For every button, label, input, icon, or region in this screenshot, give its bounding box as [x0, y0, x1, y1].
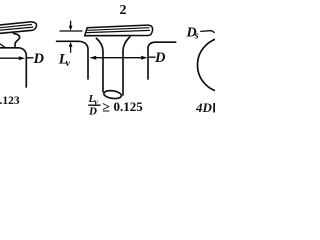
middle right port wall with rounded corner into plate	[148, 42, 176, 79]
svg-text:2: 2	[120, 3, 127, 18]
middle caption fraction D	[88, 106, 97, 118]
middle plate left with rounded corner into left port wall	[57, 41, 89, 79]
right diagram label Ds	[186, 26, 197, 41]
left diagram stem taper sliver at left edge	[0, 43, 5, 47]
D dimension left arrowhead	[89, 56, 96, 60]
middle label Lv	[58, 52, 68, 68]
left caption .123	[0, 95, 20, 107]
middle caption fraction bar	[88, 104, 101, 106]
middle label D	[154, 50, 166, 66]
sphere circle arc (cropped at right edge)	[198, 38, 253, 93]
svg-text:D: D	[154, 50, 166, 66]
trumpet stem right curve and tube wall	[123, 37, 130, 95]
diameter D dimension shaft	[94, 57, 143, 59]
thickness extension line above plate	[60, 30, 82, 32]
right caption 4D	[195, 100, 213, 115]
valve disc left diagram (cropped at left edge)	[0, 22, 36, 34]
svg-text:4D: 4D	[195, 100, 213, 115]
svg-text:D: D	[88, 106, 97, 118]
svg-text:s: s	[194, 30, 199, 41]
Lv arrow shaft	[70, 46, 72, 52]
left diagram label D	[33, 51, 45, 67]
thickness down-arrowhead	[69, 26, 73, 31]
tube open end ellipse	[103, 90, 121, 100]
middle diagram figure number 2	[120, 3, 127, 18]
middle valve disc (mushroom cap)	[85, 25, 153, 36]
middle caption fraction Lv	[88, 93, 96, 105]
middle caption geq 0.125	[102, 100, 110, 115]
svg-text:≥: ≥	[102, 100, 110, 115]
trumpet stem left curve and tube wall	[96, 38, 103, 91]
D dimension right arrowhead	[141, 56, 147, 60]
svg-text:v: v	[66, 59, 71, 69]
left diagram poppet stem taper (right side curve)	[14, 33, 20, 46]
right caption clipped glyph at edge	[213, 103, 215, 113]
left diagram label leader line	[28, 57, 34, 59]
thickness down-arrow shaft	[70, 21, 72, 26]
svg-text:0.125: 0.125	[114, 99, 144, 114]
svg-text:.123: .123	[0, 95, 20, 107]
left diagram arrowhead pointing right at wall	[19, 56, 25, 60]
Lv up-arrowhead	[69, 42, 73, 47]
left diagram plate top line with rounded corner into port wall	[0, 48, 26, 87]
left diagram dimension arrow D shaft	[0, 57, 20, 59]
D label leader line	[150, 56, 156, 58]
svg-text:D: D	[33, 51, 45, 67]
Ds leader line	[201, 31, 214, 33]
